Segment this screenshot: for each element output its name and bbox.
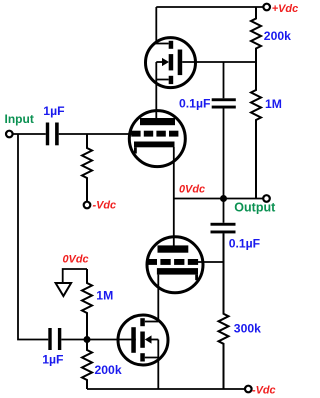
capacitor C2 1uF lower [48,328,61,350]
mosfet M1 [146,7,196,122]
wire V1 cathode down through 0Vdc rail to V2 plate [173,147,175,249]
svg-text:0Vdc: 0Vdc [63,253,89,265]
terminal -Vdc upper [84,202,91,209]
svg-text:0Vdc: 0Vdc [179,183,205,195]
wire left vertical bus down to bottom-left corner [18,134,48,340]
junction dot 0Vdc rail / C3 C4 [220,195,227,202]
svg-text:200k: 200k [264,29,291,43]
resistor R6 200k [82,340,92,390]
wire C1 to V1 grid [59,133,133,135]
mosfet M2 [118,315,168,365]
resistor R2 1M [251,62,261,199]
wire C3 bottom lead to 0Vdc rail [223,108,225,198]
triode V2 [147,237,203,293]
terminal Output [263,195,270,202]
svg-text:1µF: 1µF [43,104,64,118]
capacitor C4 0.1uF lower [211,223,236,234]
svg-text:0.1µF: 0.1µF [179,97,210,111]
wire bottom rail to -Vdc [87,388,245,390]
wire V2 grid to C4/R5 node [196,261,224,263]
terminal +Vdc [263,4,270,11]
wire 0Vdc rail to Output [174,198,263,200]
wire V2 cathode to M2 drain [157,275,159,322]
capacitor C1 1uF input [46,123,59,146]
svg-text:1µF: 1µF [42,352,63,366]
triode V1 [129,111,185,167]
resistor to -Vdc (upper left bias) [82,134,92,202]
wire top rail to +Vdc [156,6,263,8]
ground symbol 0Vdc reference [56,283,72,296]
resistor R4 1M (bias) [82,269,92,340]
svg-text:Input: Input [5,112,34,126]
svg-text:200k: 200k [95,363,122,377]
svg-text:+Vdc: +Vdc [272,3,298,15]
terminal Input [6,131,13,138]
wire C3 top lead [223,62,225,98]
wire M2 source to bottom rail [157,358,159,390]
resistor R5 300k [219,233,229,389]
capacitor C3 0.1uF upper [212,98,236,108]
svg-text:1M: 1M [96,289,113,303]
wire 0Vdc reference arm [63,269,87,283]
svg-text:-Vdc: -Vdc [252,385,276,397]
svg-text:Output: Output [234,200,276,214]
junction dot gate node lower [84,336,91,343]
wire C4 top lead from 0Vdc rail [223,199,225,223]
svg-text:1M: 1M [265,97,282,111]
svg-text:300k: 300k [234,322,261,336]
svg-text:-Vdc: -Vdc [93,199,117,211]
resistor R1 200k [251,7,261,62]
svg-text:0.1µF: 0.1µF [229,237,260,251]
terminal -Vdc lower [245,386,252,393]
wire M1 gate to R1/R2 junction [182,61,256,63]
wire input to C1 [13,133,46,135]
wire C2 to M2 gate [61,339,136,341]
